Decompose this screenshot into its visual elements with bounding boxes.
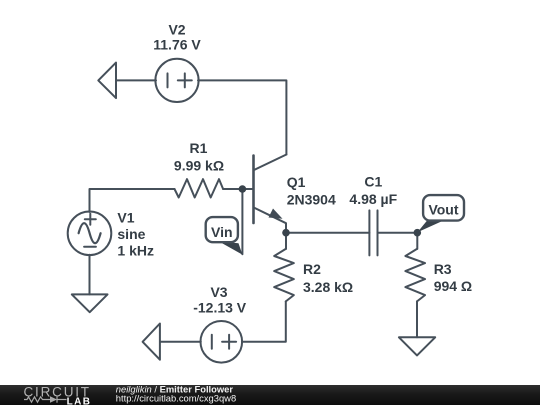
- svg-text:V2: V2: [168, 21, 185, 37]
- wire: [378, 232, 418, 234]
- wire: [416, 233, 418, 249]
- voltage source V2: [155, 59, 198, 102]
- svg-text:1 kHz: 1 kHz: [117, 243, 154, 259]
- voltage source V3: [201, 321, 243, 363]
- svg-text:R1: R1: [190, 140, 208, 156]
- wire: [160, 341, 201, 343]
- svg-text:Vin: Vin: [211, 224, 233, 240]
- svg-text:994 Ω: 994 Ω: [434, 278, 472, 294]
- svg-text:11.76 V: 11.76 V: [153, 36, 201, 52]
- wire: [242, 301, 286, 341]
- svg-text:3.28 kΩ: 3.28 kΩ: [303, 279, 353, 295]
- node C (output junction): [414, 229, 422, 237]
- svg-text:Vout: Vout: [428, 201, 458, 217]
- node B (emitter junction): [282, 229, 290, 237]
- flag Vout: [418, 195, 465, 232]
- ground: [399, 337, 435, 355]
- node A (base junction): [239, 185, 247, 193]
- transistor Q1: [254, 155, 287, 235]
- wire: [116, 79, 156, 81]
- svg-text:9.99 kΩ: 9.99 kΩ: [174, 158, 224, 174]
- wire: [285, 233, 287, 249]
- logo resistor-diode glyph: [24, 396, 67, 402]
- svg-text:-12.13 V: -12.13 V: [193, 300, 247, 316]
- resistor R3: [405, 249, 425, 302]
- svg-text:C1: C1: [364, 173, 382, 189]
- wire: [223, 188, 252, 190]
- svg-text:V1: V1: [117, 210, 134, 226]
- svg-text:2N3904: 2N3904: [287, 192, 336, 208]
- wire: [241, 189, 243, 254]
- wire: [89, 255, 91, 295]
- svg-text:http://circuitlab.com/cxg3qw8: http://circuitlab.com/cxg3qw8: [116, 392, 236, 403]
- ground arrow (left of V3): [143, 324, 160, 360]
- wire: [90, 189, 175, 212]
- svg-text:LAB: LAB: [67, 396, 92, 405]
- footer bar: [0, 385, 540, 405]
- wire: [286, 232, 369, 234]
- wire: [416, 301, 418, 337]
- resistor R2: [274, 249, 294, 302]
- wire: [198, 80, 286, 154]
- svg-text:sine: sine: [117, 226, 145, 242]
- svg-text:Q1: Q1: [287, 174, 306, 190]
- svg-text:V3: V3: [210, 284, 227, 300]
- svg-text:R3: R3: [434, 261, 452, 277]
- voltage source V1: [68, 212, 112, 256]
- ground: [72, 294, 108, 312]
- flag Vin: [206, 217, 243, 255]
- svg-text:4.98 µF: 4.98 µF: [349, 191, 397, 207]
- resistor R1: [175, 179, 224, 197]
- svg-text:R2: R2: [303, 261, 321, 277]
- capacitor C1: [369, 210, 377, 255]
- ground arrow (left of V2): [98, 63, 116, 99]
